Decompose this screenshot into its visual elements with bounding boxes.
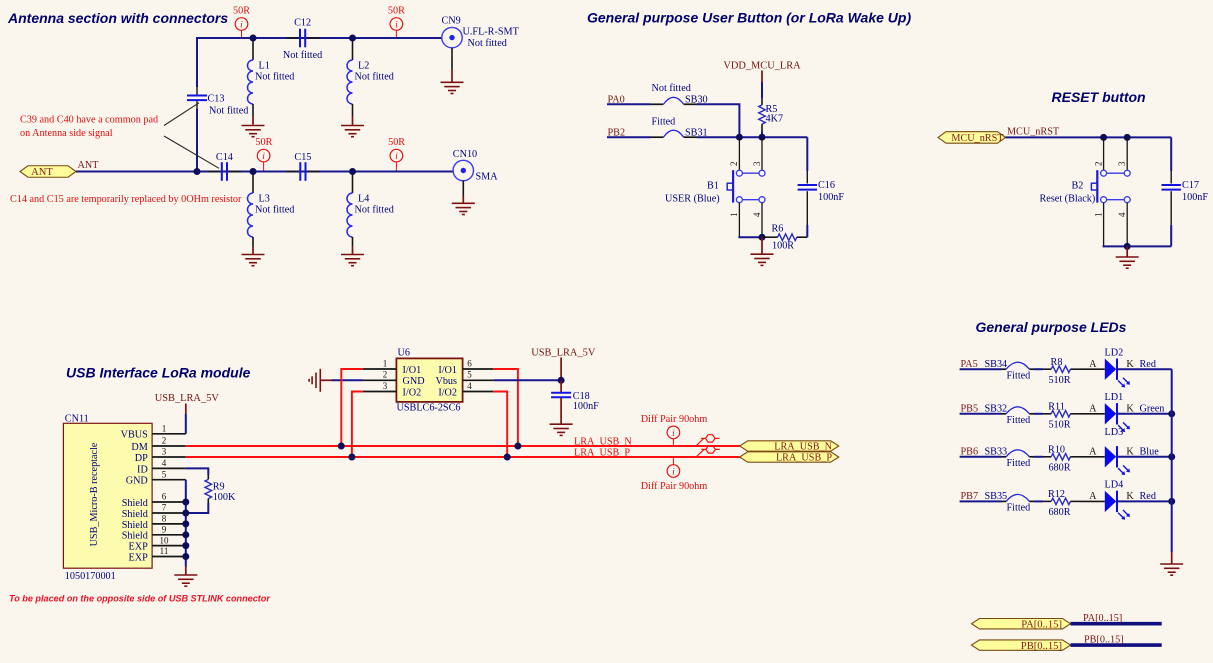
node junction shield pin 11: [182, 553, 189, 560]
svg-text:R12: R12: [1048, 489, 1065, 500]
svg-text:3: 3: [752, 161, 762, 166]
ground under CN11: [174, 567, 197, 587]
svg-text:50R: 50R: [388, 137, 405, 148]
svg-text:A: A: [1089, 403, 1097, 414]
node junction shield pin 7: [182, 510, 189, 517]
svg-text:i: i: [240, 20, 243, 30]
svg-text:Not fitted: Not fitted: [209, 106, 248, 117]
svg-text:PB[0..15]: PB[0..15]: [1021, 641, 1062, 652]
svg-text:on Antenna side signal: on Antenna side signal: [20, 128, 113, 139]
wire GND shield column: [185, 480, 187, 567]
inductor L4: [347, 174, 394, 254]
svg-text:Not fitted: Not fitted: [355, 205, 394, 216]
wire PA0 right + drop: [697, 104, 739, 137]
svg-text:I/O2: I/O2: [403, 387, 422, 398]
svg-text:USB_LRA_5V: USB_LRA_5V: [531, 347, 596, 358]
bus PA: [1071, 622, 1162, 626]
capacitor C18: [551, 380, 599, 424]
50R impedance marker 3: [255, 137, 272, 171]
svg-text:Shield: Shield: [122, 531, 148, 542]
wire DP red: [186, 456, 740, 458]
svg-text:USB_LRA_5V: USB_LRA_5V: [155, 393, 220, 404]
pin 2 U6 stub: [363, 370, 397, 381]
wire R8 to LD2: [1079, 368, 1105, 370]
svg-text:CN9: CN9: [442, 16, 461, 27]
svg-text:USBLC6-2SC6: USBLC6-2SC6: [397, 403, 461, 414]
solder bridge SB32 arc: [1006, 407, 1029, 414]
pin stub SB30 left: [651, 103, 664, 105]
svg-text:C13: C13: [208, 94, 225, 105]
svg-text:C17: C17: [1182, 180, 1199, 191]
svg-text:1: 1: [162, 424, 167, 434]
node junction B2 left: [1100, 134, 1107, 141]
solder bridge SB34 arc: [1006, 362, 1029, 369]
svg-text:USB Interface LoRa module: USB Interface LoRa module: [66, 364, 251, 380]
pin stub SB33 right: [1029, 456, 1034, 458]
pushbutton B1: [727, 170, 765, 203]
node junction row2-L4: [349, 168, 356, 175]
svg-text:K: K: [1126, 359, 1134, 370]
svg-text:SB35: SB35: [985, 491, 1008, 502]
wire PA0 left: [607, 103, 651, 105]
svg-text:K: K: [1126, 491, 1134, 502]
svg-text:Fitted: Fitted: [1007, 458, 1031, 469]
capacitor C15: [286, 152, 320, 181]
node junction shield pin 10: [182, 542, 189, 549]
svg-text:1: 1: [383, 358, 388, 368]
pin stub SB32 left: [1002, 413, 1007, 415]
svg-text:L1: L1: [259, 60, 270, 71]
svg-text:C14: C14: [216, 152, 233, 163]
svg-text:3: 3: [162, 447, 167, 457]
wire LD3 to rail: [1117, 456, 1172, 458]
wire net ANT row2: [76, 171, 453, 173]
node junction pin3/DP: [348, 454, 355, 461]
pin 8 CN11 stub: [152, 514, 186, 524]
power port USB_LRA_5V (CN11): [155, 393, 220, 414]
svg-text:ANT: ANT: [78, 160, 100, 171]
svg-text:DM: DM: [131, 442, 147, 453]
wire B1 right leg upper: [761, 137, 763, 170]
svg-text:VDD_MCU_LRA: VDD_MCU_LRA: [723, 61, 801, 72]
node junction shield pin 8: [182, 520, 189, 527]
pin 6 U6 stub: [463, 358, 494, 369]
diff pair marker bottom: [641, 457, 708, 492]
svg-text:10: 10: [160, 535, 170, 545]
resistor R10 680R: [1043, 445, 1079, 474]
svg-text:3: 3: [383, 381, 388, 391]
node junction row1-L1: [250, 35, 257, 42]
svg-text:100K: 100K: [213, 492, 236, 503]
wire R11 to LD1: [1079, 413, 1105, 415]
svg-text:Red: Red: [1140, 359, 1156, 370]
svg-text:6: 6: [162, 492, 167, 502]
svg-text:680R: 680R: [1048, 462, 1070, 473]
solder bridge SB30 arc: [663, 97, 683, 104]
svg-text:LD2: LD2: [1105, 347, 1124, 358]
pin 5 CN11 stub: [152, 469, 186, 479]
ground left of U6: [309, 369, 363, 392]
svg-text:PB5: PB5: [961, 403, 979, 414]
diff pair directive N: [696, 435, 720, 446]
wire B2 bottom: [1103, 245, 1128, 247]
pin 2 CN11 stub: [152, 436, 186, 446]
wire PA5 left: [960, 368, 1002, 370]
svg-text:Fitted: Fitted: [1007, 415, 1031, 426]
pin 10 CN11 stub: [152, 535, 186, 545]
svg-text:R10: R10: [1048, 445, 1065, 456]
svg-text:L3: L3: [259, 193, 270, 204]
wire ID to R9: [186, 468, 209, 475]
svg-text:U6: U6: [398, 348, 410, 359]
svg-text:C12: C12: [294, 18, 311, 29]
svg-text:R8: R8: [1051, 357, 1063, 368]
svg-text:1: 1: [1093, 213, 1103, 218]
resistor R5 4K7: [759, 98, 783, 132]
node junction B2 gnd: [1124, 243, 1131, 250]
wire B2 left leg upper: [1103, 137, 1105, 170]
node junction shield pin 9: [182, 531, 189, 538]
node junction R5: [759, 134, 766, 141]
svg-text:General purpose LEDs: General purpose LEDs: [976, 319, 1127, 335]
connector CN10 SMA: [453, 149, 498, 203]
svg-text:LRA_USB_N: LRA_USB_N: [774, 442, 832, 453]
svg-text:CN10: CN10: [453, 149, 477, 160]
node junction pin1/DM: [338, 443, 345, 450]
svg-text:VBUS: VBUS: [121, 430, 149, 441]
svg-text:100nF: 100nF: [573, 401, 599, 412]
solder bridge SB35 arc: [1006, 494, 1029, 501]
svg-text:11: 11: [160, 546, 169, 556]
pushbutton B2: [1091, 170, 1130, 203]
svg-text:i: i: [395, 152, 398, 162]
wire SB35 to R12: [1034, 500, 1043, 502]
wire B1 right leg lower: [761, 203, 763, 237]
svg-text:Not fitted: Not fitted: [355, 72, 394, 83]
LED LD4: [1105, 491, 1130, 520]
pin 4 CN11 stub: [152, 458, 186, 468]
wire U6 pin6 to DM: [493, 369, 518, 446]
pin 11 CN11 stub: [152, 546, 186, 556]
svg-text:C16: C16: [818, 180, 835, 191]
svg-text:I/O1: I/O1: [403, 365, 422, 376]
wire PB5 left: [960, 413, 1002, 415]
node junction LED rail LD3: [1168, 453, 1175, 460]
svg-text:USB_Micro-B receptacle: USB_Micro-B receptacle: [89, 442, 100, 546]
connector CN11 body: [63, 423, 152, 568]
svg-text:K: K: [1126, 403, 1134, 414]
50R impedance marker 1: [233, 5, 250, 37]
svg-text:A: A: [1089, 446, 1097, 457]
bus PB: [1071, 643, 1162, 647]
svg-text:C15: C15: [294, 152, 311, 163]
svg-text:510R: 510R: [1048, 419, 1070, 430]
svg-text:50R: 50R: [388, 5, 405, 16]
pin 4 U6 stub: [463, 381, 494, 392]
50R impedance marker 2: [388, 5, 405, 37]
wire B2 right leg lower: [1126, 203, 1128, 247]
svg-text:4: 4: [752, 212, 762, 217]
wire U6 pin3 to DP: [352, 392, 363, 458]
svg-text:CN11: CN11: [65, 414, 89, 425]
ground under CN9: [441, 82, 464, 93]
svg-text:To be placed on the opposite s: To be placed on the opposite side of USB…: [9, 594, 270, 604]
pin stub SB35 left: [1002, 500, 1007, 502]
node junction pin4/DP: [504, 454, 511, 461]
wire B2 right leg upper: [1126, 137, 1128, 170]
svg-text:4: 4: [467, 381, 472, 391]
wire VDD to R5: [761, 82, 763, 98]
note C39/C40 common pad: [20, 114, 158, 139]
svg-text:Reset (Black): Reset (Black): [1040, 194, 1096, 205]
node junction pin6/DM: [514, 443, 521, 450]
svg-text:Red: Red: [1140, 491, 1156, 502]
svg-text:Antenna section with connector: Antenna section with connectors: [7, 10, 228, 26]
svg-text:510R: 510R: [1048, 375, 1070, 386]
ground under L2: [341, 126, 364, 137]
svg-text:MCU_nRST: MCU_nRST: [951, 133, 1004, 144]
svg-text:9: 9: [162, 525, 167, 535]
svg-text:LRA_USB_N: LRA_USB_N: [574, 436, 632, 447]
svg-text:I/O2: I/O2: [438, 387, 457, 398]
svg-text:100R: 100R: [772, 241, 794, 252]
pin stub SB34 right: [1029, 368, 1034, 370]
svg-text:50R: 50R: [233, 5, 250, 16]
svg-text:Diff Pair 90ohm: Diff Pair 90ohm: [641, 414, 708, 425]
svg-text:LD1: LD1: [1105, 392, 1124, 403]
svg-text:i: i: [672, 429, 675, 439]
svg-text:Fitted: Fitted: [652, 116, 676, 127]
svg-text:2: 2: [383, 370, 388, 380]
svg-text:MCU_nRST: MCU_nRST: [1007, 127, 1060, 138]
svg-text:7: 7: [162, 503, 167, 513]
pin stub SB31 right: [684, 136, 697, 138]
svg-text:A: A: [1089, 359, 1097, 370]
wire PB6 left: [960, 456, 1002, 458]
50R impedance marker 4: [388, 137, 405, 171]
svg-text:A: A: [1089, 491, 1097, 502]
capacitor C14: [209, 152, 242, 181]
wire net row1 (C12 top rail): [196, 37, 442, 39]
pin 1 CN11 stub: [152, 424, 186, 434]
svg-text:PB6: PB6: [961, 446, 979, 457]
svg-text:680R: 680R: [1048, 507, 1070, 518]
ground under C18: [550, 424, 573, 435]
node junction PB2/B1: [736, 134, 743, 141]
resistor R12 680R: [1043, 489, 1079, 518]
svg-text:i: i: [262, 152, 265, 162]
node junction row2-C13: [194, 168, 201, 175]
svg-text:B2: B2: [1072, 180, 1084, 191]
port LRA_USB_P: [740, 452, 839, 464]
pin stub SB34 left: [1002, 368, 1007, 370]
wire U6 pin4 to DP: [493, 392, 507, 458]
resistor R8 510R: [1043, 357, 1079, 386]
port PA[0..15]: [972, 619, 1071, 631]
component U6 body: [396, 358, 462, 402]
svg-text:8: 8: [162, 514, 167, 524]
svg-text:3: 3: [1117, 161, 1127, 166]
svg-text:R6: R6: [772, 224, 784, 235]
svg-text:General purpose User Button (o: General purpose User Button (or LoRa Wak…: [587, 9, 911, 25]
pin stub SB30 right: [684, 103, 697, 105]
svg-text:LRA_USB_P: LRA_USB_P: [776, 453, 832, 464]
wire DM red: [186, 445, 740, 447]
pin 7 CN11 stub: [152, 503, 186, 513]
svg-text:Shield: Shield: [122, 520, 148, 531]
connector CN9 U.FL: [442, 16, 520, 82]
wire R5 to node: [761, 132, 763, 138]
pin 3 U6 stub: [363, 381, 397, 392]
svg-text:i: i: [395, 20, 398, 30]
wire C13 branch upper: [196, 37, 198, 87]
inductor L1: [248, 41, 295, 125]
LED LD3: [1105, 446, 1130, 475]
solder bridge SB33 arc: [1006, 450, 1029, 457]
svg-text:USER (Blue): USER (Blue): [665, 194, 720, 205]
svg-text:100nF: 100nF: [818, 192, 844, 203]
svg-text:SB33: SB33: [985, 446, 1008, 457]
svg-text:RESET button: RESET button: [1052, 89, 1146, 105]
wire C13 branch lower: [196, 109, 198, 172]
pin stub SB33 left: [1002, 456, 1007, 458]
svg-text:Not fitted: Not fitted: [468, 38, 507, 49]
svg-text:5: 5: [162, 469, 167, 479]
svg-text:DP: DP: [135, 453, 148, 464]
wire PB7 left: [960, 500, 1002, 502]
diff pair marker top: [641, 414, 708, 446]
inductor L3: [248, 174, 295, 254]
wire R9 to shield column: [186, 503, 209, 513]
svg-text:2: 2: [729, 162, 739, 167]
wire B2 bottom to C17: [1127, 245, 1171, 247]
svg-text:R9: R9: [213, 481, 225, 492]
svg-text:2: 2: [1093, 162, 1103, 167]
svg-text:PA[0..15]: PA[0..15]: [1083, 613, 1122, 624]
node junction LED rail LD1: [1168, 410, 1175, 417]
port PB[0..15]: [972, 640, 1071, 652]
svg-text:GND: GND: [403, 376, 425, 387]
node junction Vbus/C18: [558, 377, 565, 384]
svg-text:4: 4: [162, 458, 167, 468]
svg-text:PA[0..15]: PA[0..15]: [1021, 619, 1062, 630]
svg-text:1: 1: [729, 213, 739, 218]
pin 6 CN11 stub: [152, 492, 186, 502]
pin 9 CN11 stub: [152, 525, 186, 535]
wire SB33 to R10: [1034, 456, 1043, 458]
svg-text:Not fitted: Not fitted: [255, 205, 294, 216]
svg-text:4K7: 4K7: [766, 113, 784, 124]
pin 5 U6 stub: [463, 370, 494, 381]
svg-text:1050170001: 1050170001: [65, 571, 116, 582]
wire LD2 to rail: [1117, 368, 1172, 370]
svg-text:LRA_USB_P: LRA_USB_P: [574, 447, 630, 458]
wire PB2 to C16 branch: [697, 136, 807, 138]
LED LD2: [1105, 359, 1130, 388]
ground under L1: [242, 126, 265, 137]
svg-text:100nF: 100nF: [1182, 192, 1208, 203]
port ANT: [20, 166, 76, 178]
ground under B1: [751, 237, 774, 265]
svg-text:Vbus: Vbus: [435, 376, 457, 387]
wire VBUS up: [185, 414, 187, 434]
resistor R11 510R: [1043, 402, 1079, 431]
svg-text:PB[0..15]: PB[0..15]: [1084, 635, 1124, 646]
svg-text:LD4: LD4: [1105, 480, 1124, 491]
svg-text:Fitted: Fitted: [1007, 370, 1031, 381]
wire U6 pin5 Vbus: [493, 379, 561, 381]
inductor L2: [347, 41, 394, 125]
ground under B2: [1116, 246, 1139, 268]
wire B1 left leg upper: [738, 137, 740, 170]
svg-text:LD3: LD3: [1105, 427, 1124, 438]
svg-text:L4: L4: [358, 193, 369, 204]
node junction row2-L3: [250, 168, 257, 175]
wire B2 left leg lower: [1103, 203, 1105, 247]
svg-text:C39 and C40 have a common pad: C39 and C40 have a common pad: [20, 114, 158, 125]
resistor R9 100K: [205, 475, 236, 503]
wire LED ground rail: [1171, 369, 1173, 552]
svg-text:PB7: PB7: [961, 491, 979, 502]
note pointer line to C13: [164, 103, 199, 126]
svg-text:I/O1: I/O1: [438, 365, 457, 376]
pin 1 U6 stub: [363, 358, 397, 369]
svg-text:Diff Pair 90ohm: Diff Pair 90ohm: [641, 481, 708, 492]
svg-text:Blue: Blue: [1140, 446, 1160, 457]
svg-text:2: 2: [162, 436, 167, 446]
svg-text:C14 and C15 are temporarily re: C14 and C15 are temporarily replaced by …: [10, 194, 242, 205]
pin stub SB35 right: [1029, 500, 1034, 502]
pin stub SB31 left: [651, 136, 664, 138]
capacitor C12: [283, 18, 322, 61]
wire MCU_nRST rail: [1006, 136, 1172, 138]
note pointer line to C14: [164, 136, 219, 168]
capacitor C16: [798, 137, 845, 237]
node junction LED rail LD4: [1168, 498, 1175, 505]
svg-text:SB32: SB32: [985, 403, 1008, 414]
ground under L4: [341, 255, 364, 266]
svg-text:Not fitted: Not fitted: [255, 72, 294, 83]
svg-text:6: 6: [467, 358, 472, 368]
svg-text:K: K: [1126, 446, 1134, 457]
svg-text:U.FL-R-SMT: U.FL-R-SMT: [463, 26, 520, 37]
ground under L3: [242, 255, 265, 266]
wire R10 to LD3: [1079, 456, 1105, 458]
svg-text:R11: R11: [1048, 402, 1065, 413]
svg-text:EXP: EXP: [129, 552, 149, 563]
port LRA_USB_N: [740, 441, 839, 453]
ground under CN10: [452, 203, 475, 214]
svg-text:ANT: ANT: [31, 167, 53, 178]
svg-text:Shield: Shield: [122, 509, 148, 520]
pin stub SB32 right: [1029, 413, 1034, 415]
node junction B2 right: [1124, 134, 1131, 141]
svg-text:i: i: [672, 467, 675, 477]
svg-text:PA5: PA5: [961, 359, 978, 370]
wire B1 left leg lower: [738, 203, 740, 237]
wire SB34 to R8: [1034, 368, 1043, 370]
svg-text:EXP: EXP: [129, 542, 149, 553]
LED LD1: [1105, 403, 1130, 432]
power port USB_LRA_5V (C18): [531, 347, 596, 380]
svg-text:SB34: SB34: [985, 359, 1008, 370]
wire LD4 to rail: [1117, 500, 1172, 502]
wire U6 pin1 to DM: [341, 369, 363, 446]
wire PB2 left: [607, 136, 651, 138]
svg-text:Not fitted: Not fitted: [652, 83, 691, 94]
resistor R6 100R: [762, 224, 807, 252]
wire LD1 to rail: [1117, 413, 1172, 415]
